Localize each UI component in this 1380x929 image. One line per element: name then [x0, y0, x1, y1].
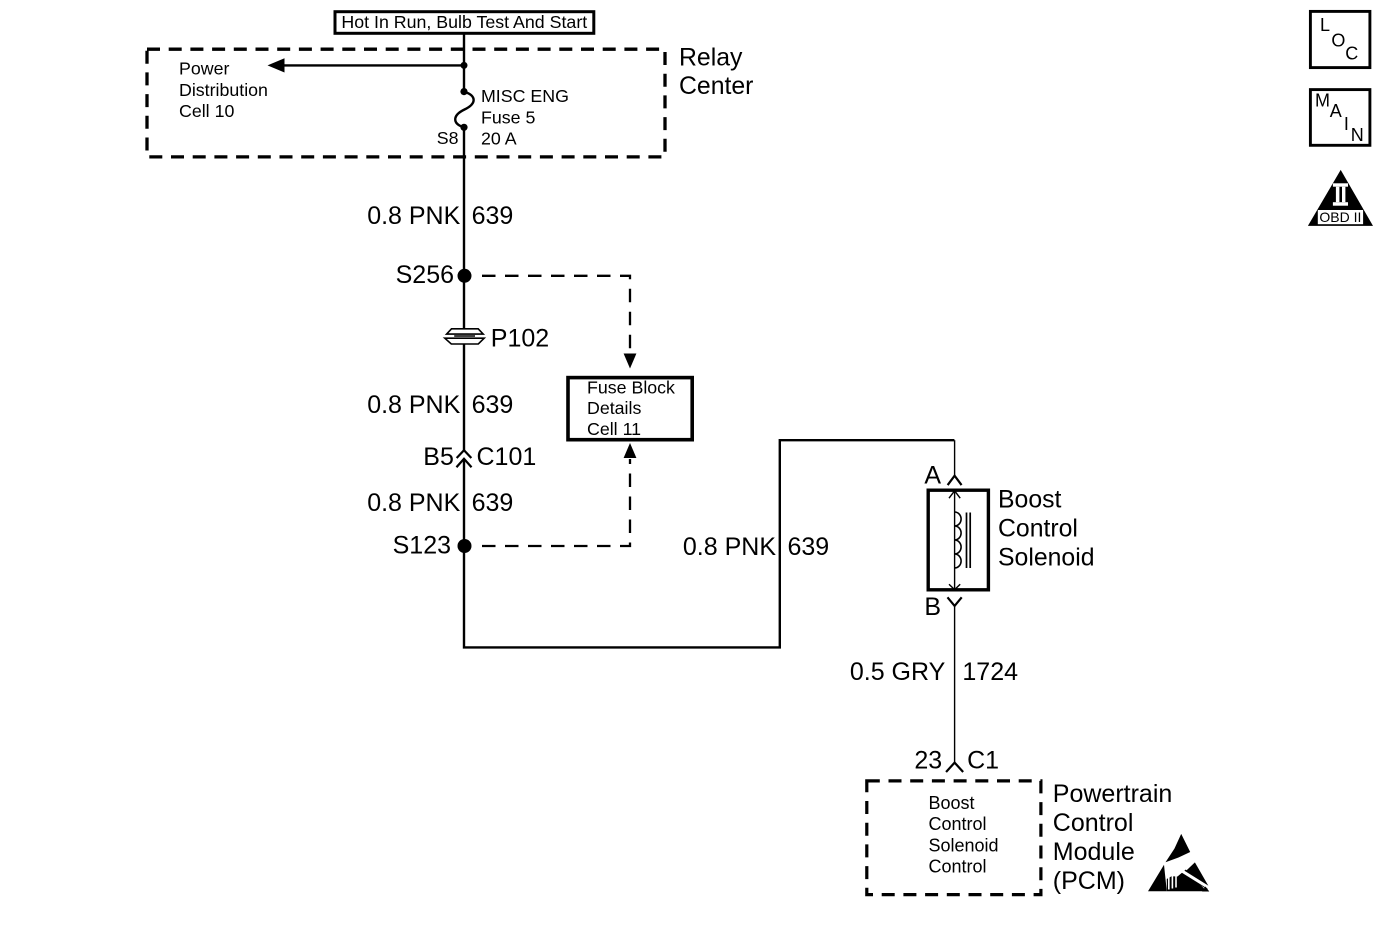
svg-text:P102: P102: [491, 325, 549, 353]
svg-text:Boost: Boost: [998, 487, 1062, 514]
svg-text:0.8 PNK: 0.8 PNK: [367, 489, 460, 517]
svg-text:L: L: [1320, 15, 1330, 35]
svg-text:(PCM): (PCM): [1053, 867, 1125, 895]
svg-text:Control: Control: [929, 814, 987, 834]
svg-text:Control: Control: [929, 857, 987, 877]
svg-text:Powertrain: Powertrain: [1053, 780, 1173, 808]
svg-text:B5: B5: [423, 443, 454, 471]
svg-text:Cell 11: Cell 11: [587, 419, 641, 439]
svg-text:A: A: [924, 461, 941, 489]
svg-text:A: A: [1330, 101, 1342, 121]
svg-text:Fuse Block: Fuse Block: [587, 378, 675, 398]
svg-text:C: C: [1345, 44, 1358, 64]
svg-text:MISC ENG: MISC ENG: [481, 86, 569, 106]
svg-text:S123: S123: [393, 532, 451, 560]
svg-text:Distribution: Distribution: [179, 80, 268, 100]
svg-text:Hot In Run, Bulb Test And Star: Hot In Run, Bulb Test And Start: [341, 12, 587, 32]
svg-text:0.8 PNK: 0.8 PNK: [683, 533, 776, 561]
svg-text:0.5 GRY: 0.5 GRY: [850, 658, 946, 686]
svg-text:Boost: Boost: [929, 793, 975, 813]
svg-text:0.8 PNK: 0.8 PNK: [367, 202, 460, 230]
svg-text:639: 639: [472, 489, 514, 517]
svg-text:Relay: Relay: [679, 45, 743, 72]
svg-text:Power: Power: [179, 59, 229, 79]
svg-text:Fuse 5: Fuse 5: [481, 107, 535, 127]
svg-text:639: 639: [472, 202, 514, 230]
svg-text:B: B: [924, 593, 941, 621]
svg-text:Control: Control: [998, 516, 1078, 543]
svg-text:639: 639: [472, 391, 514, 419]
svg-text:Details: Details: [587, 398, 641, 418]
svg-text:OBD II: OBD II: [1319, 209, 1361, 225]
svg-text:S256: S256: [396, 261, 454, 289]
svg-text:Control: Control: [1053, 809, 1134, 837]
svg-text:O: O: [1331, 31, 1345, 51]
svg-text:0.8 PNK: 0.8 PNK: [367, 391, 460, 419]
svg-text:Solenoid: Solenoid: [998, 545, 1095, 572]
svg-text:Solenoid: Solenoid: [929, 835, 999, 855]
svg-text:I: I: [1344, 114, 1349, 134]
svg-text:C1: C1: [967, 747, 999, 775]
svg-text:S8: S8: [437, 128, 459, 148]
svg-text:1724: 1724: [962, 658, 1018, 686]
svg-text:C101: C101: [477, 443, 537, 471]
svg-text:Module: Module: [1053, 838, 1135, 866]
svg-text:20 A: 20 A: [481, 129, 517, 149]
svg-text:N: N: [1351, 125, 1364, 145]
svg-text:Center: Center: [679, 73, 753, 100]
svg-text:23: 23: [914, 747, 942, 775]
svg-text:639: 639: [788, 533, 830, 561]
svg-text:Cell 10: Cell 10: [179, 101, 234, 121]
svg-text:M: M: [1315, 90, 1330, 110]
